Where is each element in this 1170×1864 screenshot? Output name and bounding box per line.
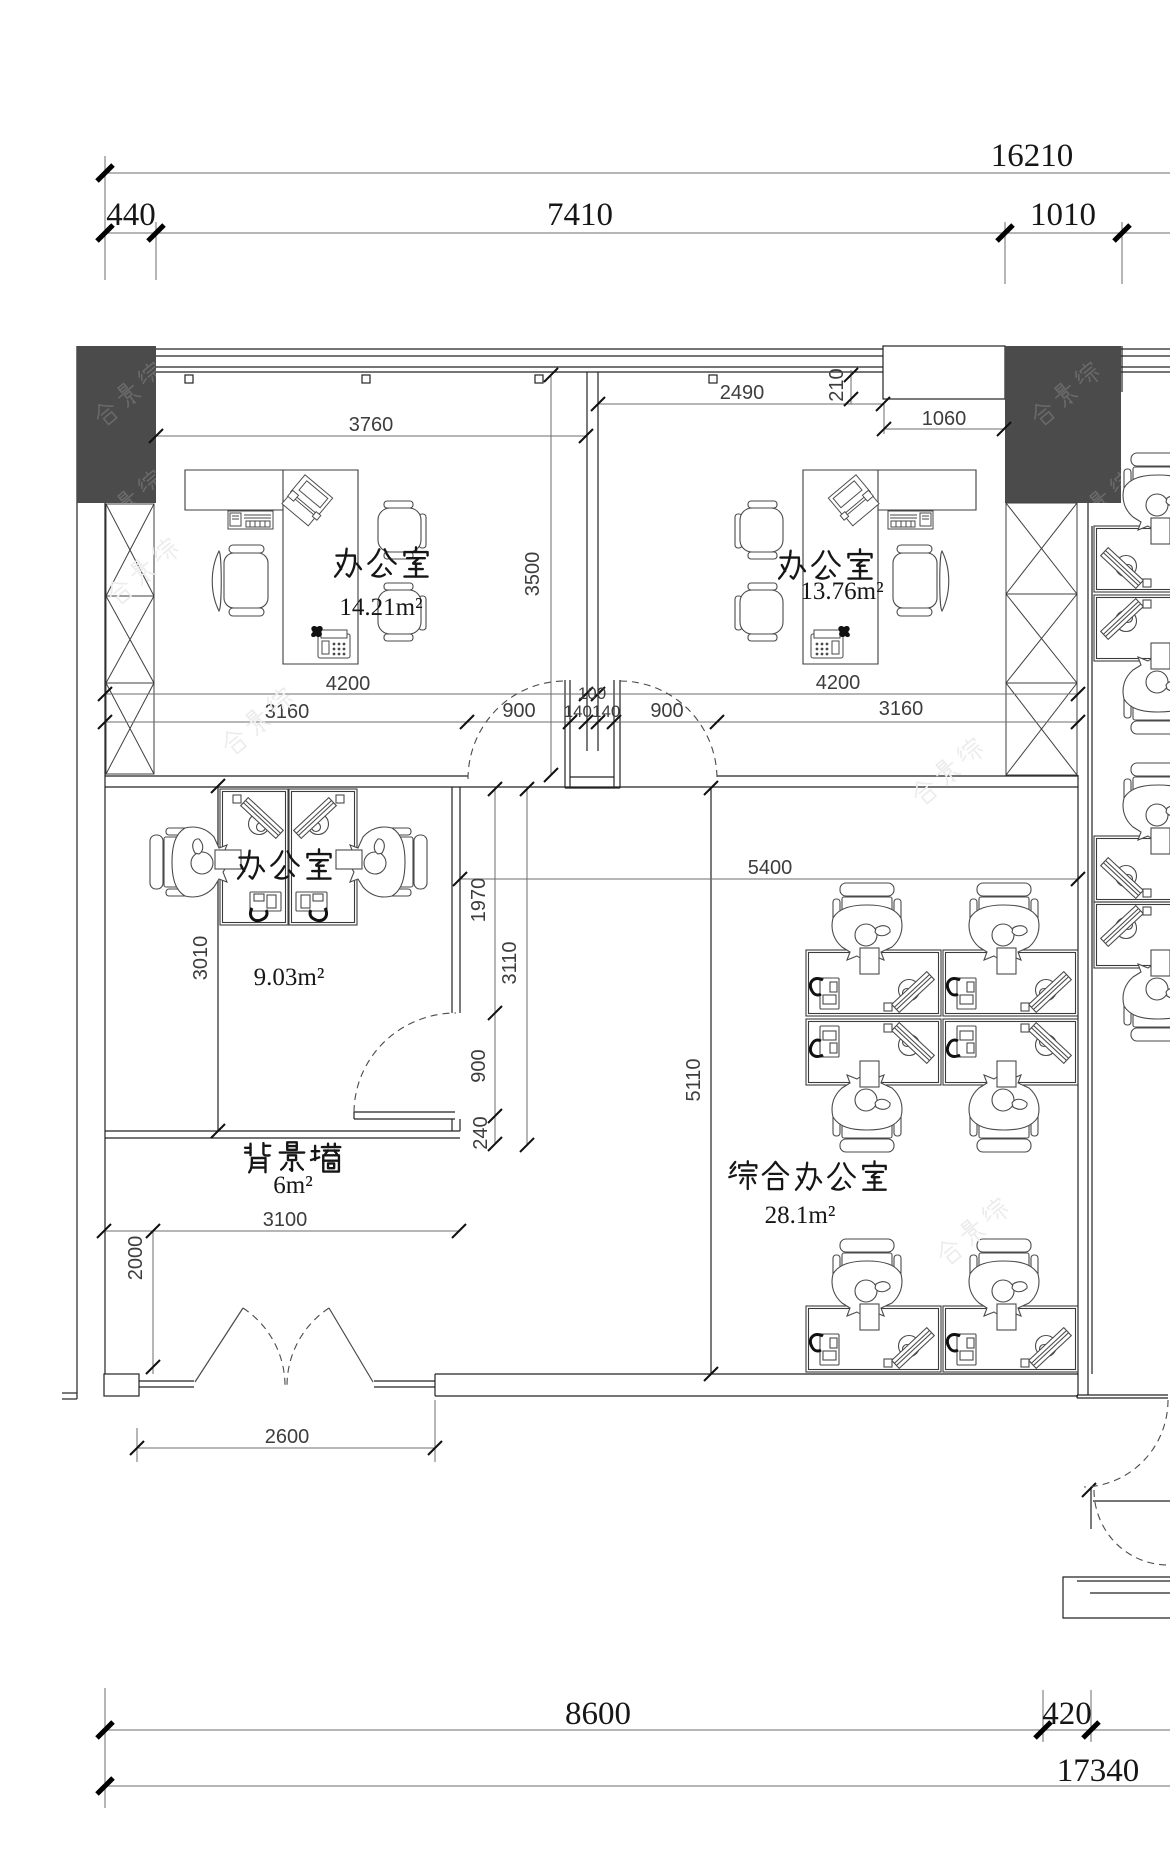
wall small office bottom	[105, 1130, 460, 1132]
svg-text:17340: 17340	[1057, 1753, 1140, 1789]
mullion tab 1	[185, 375, 193, 383]
svg-text:3160: 3160	[879, 698, 924, 720]
dim line 3160/900/140/140/900/3160	[105, 721, 1078, 723]
extension lines bottom	[104, 1688, 106, 1808]
workstation A3	[806, 1019, 941, 1152]
ticks 3010	[211, 779, 225, 793]
dim line 4200/100/4200	[105, 693, 1078, 695]
monitor small office left	[233, 795, 283, 838]
sill right exterior door	[1077, 1394, 1168, 1396]
svg-text:1060: 1060	[922, 408, 967, 430]
mullion tab 4	[709, 375, 717, 383]
tick marks bold bottom	[97, 1722, 113, 1738]
entrance sill left	[139, 1380, 194, 1382]
wall niche box top	[883, 346, 1005, 399]
door swing small office	[354, 1013, 456, 1112]
watermark dark block right	[1028, 360, 1137, 535]
worker N1	[1123, 453, 1170, 544]
wall small office right stub	[451, 1119, 453, 1131]
ticks 5110	[704, 781, 718, 795]
door swing exterior upper	[1084, 1400, 1168, 1487]
ticks 210	[844, 368, 858, 382]
keyboard office1	[228, 511, 273, 529]
ticks 1060	[877, 422, 891, 436]
svg-text:9.03m²: 9.03m²	[254, 964, 325, 991]
exterior stub line	[1093, 1500, 1170, 1502]
column block top-right	[1005, 346, 1121, 503]
workstation N2	[1094, 595, 1170, 661]
wall right inner face	[1077, 775, 1079, 1395]
mirrored right half small office	[289, 789, 427, 925]
workstation A4	[943, 1019, 1078, 1152]
svg-text:240: 240	[470, 1116, 492, 1149]
ticks 3100	[97, 1224, 111, 1238]
extension lines top	[104, 156, 106, 280]
svg-text:2000: 2000	[125, 1236, 147, 1281]
exterior landing step	[1063, 1577, 1170, 1618]
svg-text:3100: 3100	[263, 1209, 308, 1231]
tick exterior door	[1082, 1483, 1096, 1497]
wall top curtain band left segment	[156, 349, 883, 372]
svg-text:13.76m²: 13.76m²	[800, 578, 883, 605]
ticks 2600	[130, 1441, 144, 1455]
label office1	[335, 549, 361, 577]
svg-text:100: 100	[578, 684, 606, 703]
svg-text:4200: 4200	[816, 672, 861, 694]
ticks 3110	[520, 782, 534, 796]
svg-text:5110: 5110	[683, 1058, 705, 1101]
dim line 2490	[598, 403, 883, 405]
svg-text:3110: 3110	[499, 941, 521, 984]
telephone office1	[311, 626, 350, 658]
shaft column left with cross bracing	[106, 504, 154, 774]
dim line 210	[850, 370, 852, 404]
wall right outer face	[1087, 503, 1089, 1395]
svg-text:210: 210	[826, 368, 848, 401]
dim line 1970/900/240 vertical	[494, 789, 496, 1144]
door frame posts between offices	[564, 680, 566, 788]
svg-text:420: 420	[1042, 1696, 1092, 1732]
dim line 1060	[884, 428, 1004, 430]
guest chair office1 b	[378, 583, 426, 641]
worker small office left	[150, 827, 241, 897]
wall top curtain band right segment	[1121, 349, 1170, 372]
workstation B1	[806, 1239, 941, 1372]
desk small office left	[220, 789, 288, 925]
svg-text:4200: 4200	[326, 673, 371, 695]
svg-text:3500: 3500	[522, 552, 544, 597]
svg-text:14.21m²: 14.21m²	[339, 594, 422, 621]
dim line total top 16210	[105, 172, 1170, 174]
executive chair office1	[212, 545, 268, 616]
svg-text:2490: 2490	[720, 382, 765, 404]
dim line 3500 vertical	[550, 375, 552, 775]
door leaf small office	[354, 1111, 455, 1113]
wall small office left partition line	[217, 786, 219, 1131]
wall bottom main	[435, 1373, 1078, 1375]
wall partition between offices	[586, 372, 588, 751]
svg-text:900: 900	[468, 1049, 490, 1082]
mullion tab 2	[362, 375, 370, 383]
label feature wall	[245, 1143, 270, 1172]
wall entrance corner block	[104, 1374, 139, 1396]
desk L-shape office1	[185, 470, 358, 664]
ticks 4200 line	[98, 687, 112, 701]
svg-text:900: 900	[502, 700, 535, 722]
wall office1 bottom	[105, 775, 468, 777]
door swing office1	[468, 681, 565, 779]
svg-text:3760: 3760	[349, 414, 394, 436]
workstation B2	[943, 1239, 1078, 1372]
wall offices bottom lower line	[105, 786, 1078, 788]
svg-text:140140: 140140	[564, 702, 621, 721]
ticks 2000	[146, 1224, 160, 1238]
column block top-left	[77, 346, 156, 503]
wall neighbour unit line	[1091, 526, 1093, 1374]
label general office	[729, 1161, 756, 1189]
ticks 2490	[591, 397, 605, 411]
workstation N1	[1094, 526, 1170, 592]
dim line top segments 440/7410/1010	[105, 232, 1170, 234]
ticks 3500	[544, 368, 558, 382]
svg-text:900: 900	[650, 700, 683, 722]
dim line bottom total 17340	[105, 1785, 1170, 1787]
door swing entrance left	[243, 1308, 285, 1387]
label office2	[779, 551, 805, 579]
worker N3	[1123, 763, 1170, 854]
door leaf entrance left	[195, 1308, 243, 1382]
wall left outer face	[76, 346, 78, 1399]
dim line 3110 vertical	[526, 789, 528, 1145]
dim line 3100	[104, 1230, 459, 1232]
svg-text:6m²: 6m²	[273, 1172, 312, 1199]
telephone small office left	[250, 892, 281, 921]
wall left inner face	[104, 503, 106, 1374]
shaft column right with cross bracing	[1006, 503, 1077, 775]
worker N4	[1123, 950, 1170, 1041]
door sill between offices	[570, 776, 614, 778]
ticks 5400	[453, 872, 467, 886]
ticks 1970/900/240	[488, 782, 502, 796]
svg-text:7410: 7410	[547, 197, 613, 233]
guest chair office1 a	[378, 501, 426, 559]
entrance sill right	[374, 1380, 435, 1382]
dim line 5400	[460, 878, 1078, 880]
svg-text:2600: 2600	[265, 1426, 310, 1448]
door swing office2	[620, 681, 717, 779]
ticks 3760	[149, 429, 163, 443]
wall big office left	[710, 787, 712, 1374]
svg-text:440: 440	[106, 197, 156, 233]
workstation N4	[1094, 902, 1170, 968]
worker N2	[1123, 643, 1170, 734]
dim line 3760	[156, 435, 586, 437]
wall left bottom notch	[62, 1392, 77, 1394]
svg-text:3010: 3010	[190, 936, 212, 981]
monitor office1	[281, 475, 334, 528]
dim line 2000 vertical	[152, 1231, 154, 1374]
watermark faint white areas	[103, 536, 1011, 1267]
wall niche right edge stub	[1121, 346, 1123, 392]
svg-text:1010: 1010	[1030, 197, 1096, 233]
workstation A1	[806, 883, 941, 1016]
svg-text:8600: 8600	[565, 1696, 631, 1732]
wall small office right upper	[451, 787, 453, 1013]
dim line bottom 8600/420	[105, 1729, 1170, 1731]
furniture office2 mirrored	[735, 470, 976, 664]
svg-text:1970: 1970	[468, 878, 490, 923]
watermark dark block left	[91, 360, 165, 535]
workstation N3	[1094, 836, 1170, 902]
wall office2 bottom	[717, 775, 1078, 777]
mullion tab 3	[535, 375, 543, 383]
door swing entrance right	[287, 1308, 329, 1387]
svg-text:28.1m²: 28.1m²	[765, 1202, 836, 1229]
tick marks bold top	[97, 165, 113, 181]
ticks 3160 line	[98, 715, 112, 729]
svg-text:16210: 16210	[991, 138, 1074, 174]
workstation A2	[943, 883, 1078, 1016]
svg-text:5400: 5400	[748, 857, 793, 879]
dim line 2600	[137, 1447, 435, 1449]
door leaf entrance right	[329, 1308, 373, 1382]
label small office	[238, 851, 264, 879]
door swing exterior lower	[1094, 1490, 1168, 1565]
